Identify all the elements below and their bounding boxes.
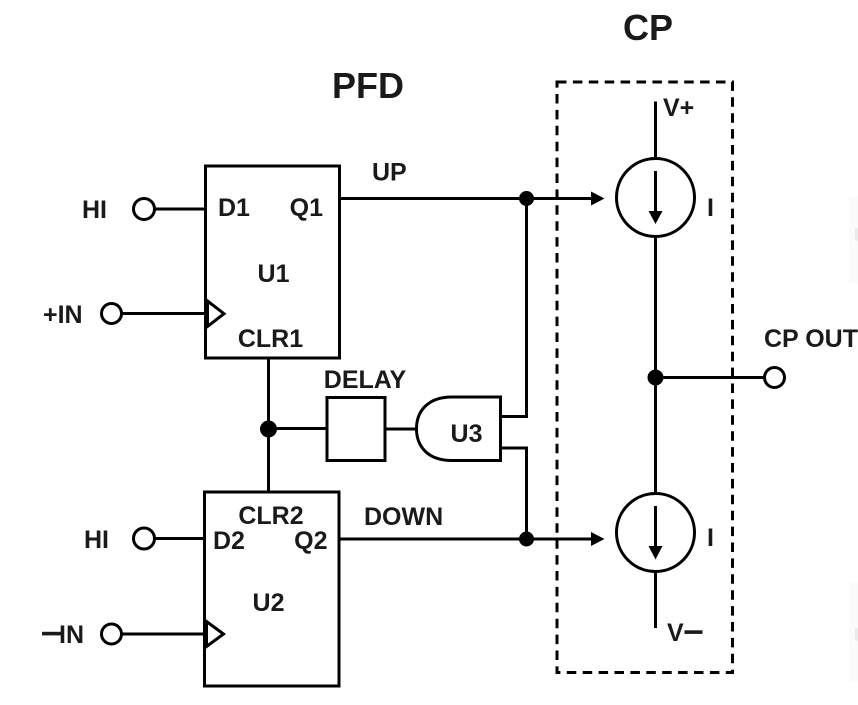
svg-text:D1: D1 — [218, 194, 250, 222]
wire U3 bottom input to DOWN node — [501, 448, 527, 539]
junction dot UP node — [519, 191, 534, 206]
wire DELAY to U3 output — [385, 428, 417, 431]
svg-text:V+: V+ — [663, 94, 694, 122]
terminal HI (bottom) — [84, 526, 155, 554]
svg-text:Q2: Q2 — [294, 527, 327, 555]
svg-text:CLR2: CLR2 — [238, 502, 303, 530]
svg-text:CP: CP — [623, 7, 673, 48]
current source I (bottom) — [617, 494, 695, 572]
svg-text:U2: U2 — [253, 589, 285, 617]
wire CLR node to DELAY — [269, 427, 328, 430]
and-gate U3 (mirrored, output left) — [417, 397, 501, 461]
junction dot CLR node — [260, 421, 277, 438]
svg-text:HI: HI — [82, 196, 107, 224]
arrowhead UP — [591, 192, 605, 206]
wire HI to D2 — [155, 537, 205, 540]
arrowhead DOWN — [591, 532, 605, 546]
junction dot CP OUT node — [648, 370, 664, 386]
current source I (top) — [617, 159, 695, 237]
svg-text:V: V — [667, 619, 684, 647]
svg-text:UP: UP — [372, 159, 407, 187]
svg-text:U1: U1 — [258, 260, 290, 288]
flip-flop U1 — [206, 166, 340, 358]
wire UP (Q1 to charge pump) — [340, 197, 592, 200]
svg-text:IN: IN — [59, 621, 84, 649]
terminal +IN — [43, 301, 122, 329]
svg-text:DOWN: DOWN — [364, 503, 443, 531]
wire -IN to U2 clock — [122, 633, 205, 636]
svg-text:I: I — [707, 194, 714, 222]
junction dot DOWN node — [519, 532, 534, 547]
terminal HI (top) — [82, 196, 155, 224]
terminal CP OUT — [765, 368, 785, 388]
svg-text:PFD: PFD — [332, 65, 404, 106]
svg-text:+IN: +IN — [43, 301, 83, 329]
svg-text:DELAY: DELAY — [324, 366, 407, 394]
flip-flop U2 — [205, 492, 340, 686]
wire +IN to U1 clock — [122, 312, 206, 315]
svg-text:CLR1: CLR1 — [238, 325, 303, 353]
delay block DELAY — [324, 366, 407, 461]
svg-text:HI: HI — [84, 526, 109, 554]
wire DOWN (Q2 to charge pump) — [339, 538, 592, 541]
svg-text:Q1: Q1 — [290, 194, 323, 222]
svg-text:D2: D2 — [213, 527, 245, 555]
svg-text:CP OUT: CP OUT — [764, 325, 858, 353]
wire HI to D1 — [155, 208, 206, 211]
wire CLR1 to CLR2 — [267, 358, 270, 492]
wire V+ to current source — [654, 102, 657, 160]
svg-text:U3: U3 — [451, 420, 483, 448]
terminal -IN — [42, 621, 122, 649]
wire bottom source to V- — [654, 572, 657, 629]
wire CP OUT node to terminal — [656, 376, 765, 379]
wire top source to CP OUT node — [654, 237, 657, 494]
svg-text:I: I — [707, 524, 714, 552]
wire UP node to U3 top input — [501, 199, 527, 417]
CP dashed boundary — [557, 82, 733, 673]
